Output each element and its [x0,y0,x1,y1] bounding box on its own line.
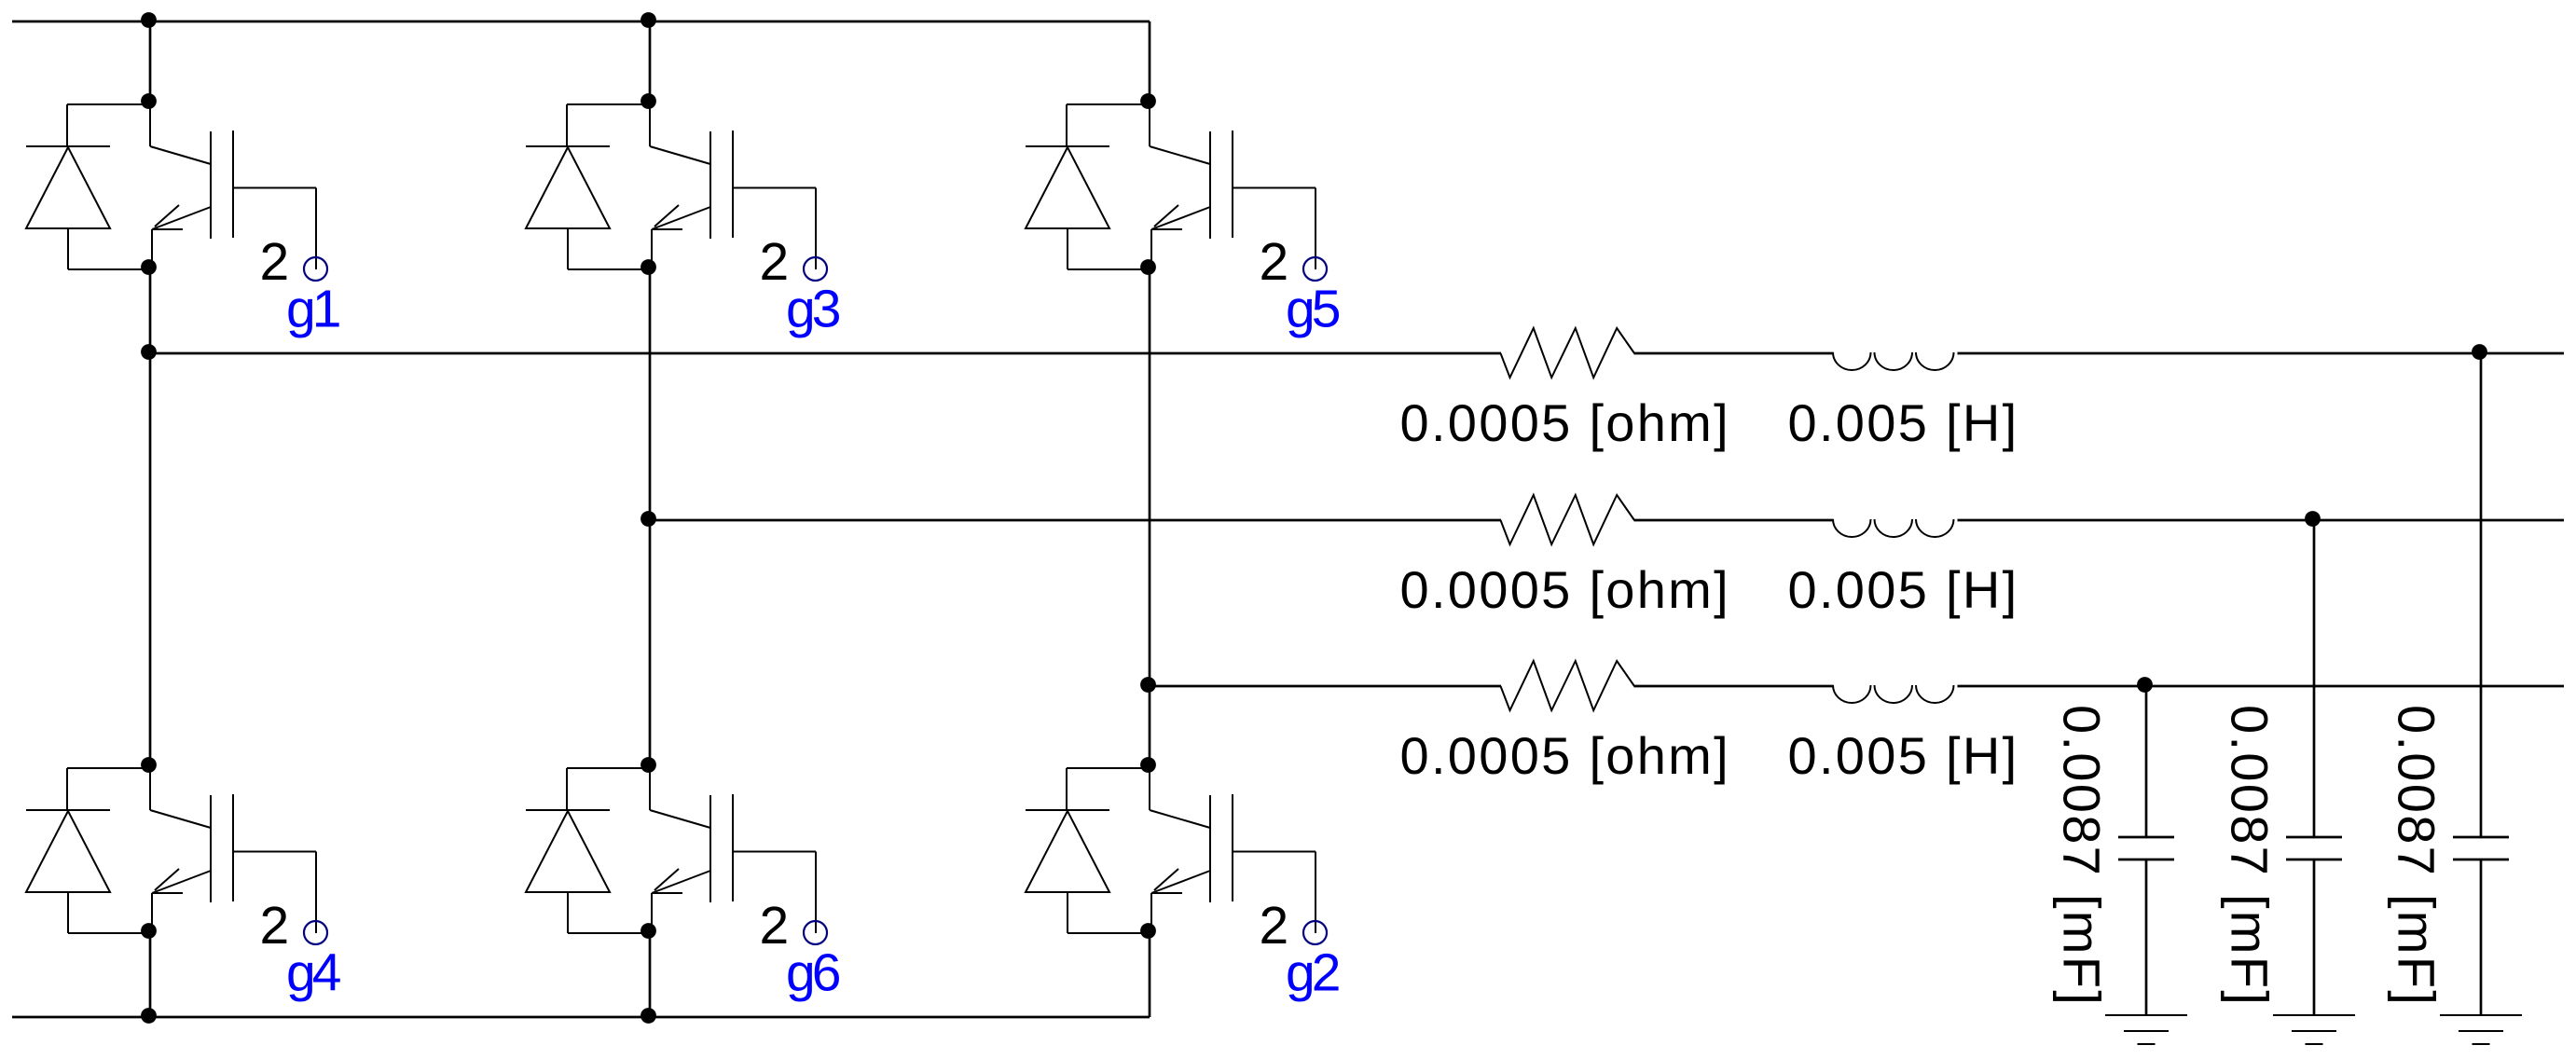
wire diode D6 anode to Q6 emitter node [1067,892,1068,933]
node phase C capacitor tap [2137,677,2153,693]
wire Q5 collector node to diode D5 cathode [1067,103,1150,105]
svg-text:2: 2 [260,896,290,956]
svg-text:g5: g5 [1286,280,1340,339]
junction top bus / leg 1 [141,12,157,28]
ground symbol below C2 [2273,1015,2355,1044]
wire diode D3 anode to Q3 emitter node [567,228,569,269]
node phase B capacitor tap [2305,511,2321,527]
svg-text:2: 2 [1260,232,1289,292]
wire diode D4 anode to Q4 emitter node [567,892,569,933]
diode D6 (antiparallel, g2 valve) [1026,810,1109,892]
gate terminal port g3 [804,257,827,281]
wire bottom DC bus (-) [12,1016,1150,1019]
inductor L2 0.005 H [1833,519,1954,537]
svg-text:g3: g3 [786,280,840,339]
wire C3 top lead [2145,686,2148,837]
node Q4 emitter junction [641,923,656,939]
svg-text:0.0087 [mF]: 0.0087 [mF] [2221,705,2280,1007]
IGBT Q6 (g2 valve) [1150,766,1233,932]
resistor R2 0.0005 ohm [1501,495,1635,544]
IGBT Q4 (g6 valve) [650,766,733,932]
svg-text:g1: g1 [286,280,339,339]
wire Q2 collector node to diode D2 cathode [67,767,150,769]
svg-text:2: 2 [760,232,790,292]
wire phase C leg to R3 [1150,685,1501,688]
wire leg 1 lower valve to bottom bus [149,932,152,1017]
wire gate lead of Q1 [233,187,316,189]
wire C2 bottom lead [2313,860,2316,1015]
wire Q6 collector node to diode D6 cathode [1067,767,1150,769]
diode D5 (antiparallel, g5 valve) [1026,146,1109,228]
junction bottom bus / leg 1 [141,1008,157,1024]
wire C3 bottom lead [2145,860,2148,1015]
svg-text:0.0005 [ohm]: 0.0005 [ohm] [1400,393,1731,452]
junction top bus / leg 2 [641,12,656,28]
wire Q3 collector node to diode D3 cathode [567,103,650,105]
node Q5 collector junction [1140,93,1156,109]
diode D1 (antiparallel, g1 valve) [26,146,110,228]
wire phase B R2 to L2 [1634,519,1834,522]
svg-text:0.005 [H]: 0.005 [H] [1788,560,2019,619]
svg-text:0.0005 [ohm]: 0.0005 [ohm] [1400,560,1731,619]
svg-text:2: 2 [260,232,290,292]
svg-text:0.005 [H]: 0.005 [H] [1788,726,2019,785]
svg-text:2: 2 [760,896,790,956]
gate terminal port g6 [804,921,827,944]
junction bottom bus / leg 2 [641,1008,656,1024]
wire diode D1 anode to Q1 emitter node [67,228,69,269]
node phase B at leg 2 [641,511,656,527]
wire C1 bottom lead [2480,860,2483,1015]
node phase A at leg 1 [141,344,157,360]
node phase A capacitor tap [2472,344,2487,360]
wire gate lead of Q6 [1233,851,1316,853]
node Q6 emitter junction [1140,923,1156,939]
wire leg 1 top bus to upper valve [149,21,152,103]
node Q2 collector junction [141,757,157,773]
wire gate lead of Q4 [733,851,816,853]
wire leg 1 upper valve to lower valve (phase node) [149,268,152,766]
wire C1 top lead [2480,353,2483,837]
wire phase B L2 to line end [1958,519,2565,522]
wire gate lead of Q3 [733,187,816,189]
svg-text:g4: g4 [286,943,341,1003]
node Q4 collector junction [641,757,656,773]
wire phase A R1 to L1 [1634,352,1834,355]
gate terminal port g2 [1303,921,1327,944]
wire gate lead of Q2 [233,851,316,853]
gate terminal port g5 [1303,257,1327,281]
wire top DC bus (+) [12,21,1150,23]
svg-text:0.0087 [mF]: 0.0087 [mF] [2388,705,2446,1007]
wire phase B leg to R2 [650,519,1501,522]
wire leg 2 upper valve to lower valve (phase node) [649,268,652,766]
inductor L1 0.005 H [1833,352,1954,370]
wire leg 2 top bus to upper valve [649,21,652,103]
diode D4 (antiparallel, g6 valve) [526,810,610,892]
node Q6 collector junction [1140,757,1156,773]
IGBT Q1 (g1 valve) [150,103,233,268]
capacitor C2 0.0087 mF [2286,837,2342,860]
wire Q1 collector node to diode D1 cathode [67,103,150,105]
wire phase A leg to R1 [150,352,1501,355]
ground symbol below C3 [2105,1015,2187,1044]
wire diode D5 anode to Q5 emitter node [1067,228,1068,269]
capacitor C3 0.0087 mF [2118,837,2174,860]
node Q5 emitter junction [1140,259,1156,275]
node Q3 emitter junction [641,259,656,275]
wire leg 2 lower valve to bottom bus [649,932,652,1017]
resistor R1 0.0005 ohm [1501,328,1635,378]
wire leg 3 top bus to upper valve [1149,21,1151,103]
wire gate lead of Q5 [1233,187,1316,189]
svg-text:g2: g2 [1286,943,1339,1003]
node phase C at leg 3 [1140,677,1156,693]
wire phase C R3 to L3 [1634,685,1834,688]
wire leg 3 lower valve to bottom bus [1149,932,1151,1017]
wire Q4 collector node to diode D4 cathode [567,767,650,769]
svg-text:2: 2 [1260,896,1289,956]
wire C2 top lead [2313,520,2316,837]
gate terminal port g4 [304,921,327,944]
diode D3 (antiparallel, g3 valve) [526,146,610,228]
svg-text:0.005 [H]: 0.005 [H] [1788,393,2019,452]
wire leg 3 upper valve to lower valve (phase node) [1149,268,1151,766]
svg-text:0.0087 [mF]: 0.0087 [mF] [2053,705,2112,1007]
resistor R3 0.0005 ohm [1501,661,1635,710]
node Q1 emitter junction [141,259,157,275]
node Q1 collector junction [141,93,157,109]
capacitor C1 0.0087 mF [2453,837,2509,860]
wire diode D2 anode to Q2 emitter node [67,892,69,933]
svg-text:0.0005 [ohm]: 0.0005 [ohm] [1400,726,1731,785]
wire phase A L1 to line end [1958,352,2565,355]
IGBT Q5 (g5 valve) [1150,103,1233,268]
IGBT Q2 (g4 valve) [150,766,233,932]
inductor L3 0.005 H [1833,685,1954,703]
node Q2 emitter junction [141,923,157,939]
IGBT Q3 (g3 valve) [650,103,733,268]
node Q3 collector junction [641,93,656,109]
diode D2 (antiparallel, g4 valve) [26,810,110,892]
svg-text:g6: g6 [786,943,840,1003]
gate terminal port g1 [304,257,327,281]
ground symbol below C1 [2440,1015,2522,1044]
wire phase C L3 to line end [1958,685,2565,688]
